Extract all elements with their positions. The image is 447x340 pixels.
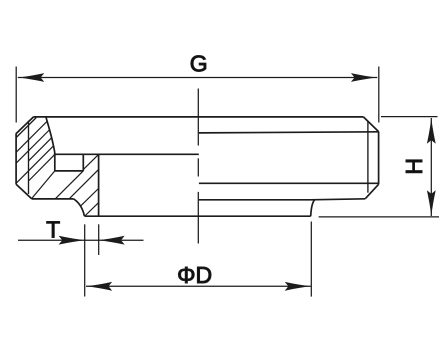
dimension T / PhiD left extension line bbox=[84, 224, 86, 296]
bottom edge left bbox=[32, 198, 74, 200]
dimension H bottom extension line bbox=[319, 216, 439, 218]
hatch line 9 bbox=[69, 170, 98, 199]
bottom face bbox=[84, 215, 310, 217]
body rim line right (y=183) bbox=[199, 182, 379, 184]
H top arrow bbox=[427, 118, 436, 144]
dimension H top extension line bbox=[381, 116, 438, 118]
left fillet bbox=[74, 199, 85, 216]
dimension G left extension line bbox=[15, 67, 17, 123]
top-right chamfer bbox=[363, 117, 378, 132]
hatch line 6 bbox=[32, 171, 55, 199]
svg-text:ΦD: ΦD bbox=[177, 262, 212, 288]
hatch line 5 bbox=[29, 154, 55, 181]
right fillet bbox=[311, 200, 315, 217]
hatch line 7 bbox=[55, 171, 83, 199]
top-left chamfer crest line bbox=[16, 117, 33, 134]
dimension T right extension line bbox=[98, 224, 100, 255]
recess floor line bbox=[54, 153, 199, 155]
G right arrow bbox=[351, 73, 377, 82]
left root line bbox=[28, 121, 30, 194]
left crest edge bbox=[15, 133, 17, 184]
svg-text:H: H bbox=[401, 158, 427, 175]
svg-text:T: T bbox=[46, 217, 60, 243]
bottom-left chamfer bbox=[16, 184, 32, 199]
G left arrow bbox=[18, 73, 44, 82]
dimension H line bbox=[430, 118, 432, 216]
hatch line 11 bbox=[85, 203, 99, 216]
groove box bottom bbox=[55, 170, 84, 172]
top face bbox=[34, 116, 364, 118]
hatch line 8 bbox=[83, 155, 98, 170]
dimension PhiD line bbox=[86, 285, 311, 287]
right chamfer circle line bbox=[199, 132, 378, 133]
hatch line 3 bbox=[29, 138, 52, 161]
H bottom arrow bbox=[427, 190, 436, 216]
T left arrow (points right) bbox=[59, 236, 85, 245]
hatch line 4 bbox=[16, 146, 53, 183]
dimension T line bbox=[18, 239, 144, 241]
step wall bbox=[98, 154, 100, 216]
dimension PhiD right extension line bbox=[310, 222, 312, 297]
inner taper (slant) bbox=[46, 117, 55, 154]
dimension G right extension line bbox=[378, 67, 380, 123]
hatch line 1 bbox=[16, 121, 47, 152]
right crest edge bbox=[378, 132, 380, 185]
svg-text:G: G bbox=[190, 51, 208, 77]
PhiD right arrow bbox=[285, 282, 311, 291]
top-left chamfer root line bbox=[16, 118, 36, 138]
hatch line 2 bbox=[16, 130, 50, 164]
T right arrow (points left) bbox=[99, 236, 125, 245]
section hatching of left wall bbox=[16, 121, 99, 216]
dimension G line bbox=[18, 77, 378, 79]
arrowheads bbox=[18, 73, 435, 291]
groove box left wall bbox=[54, 154, 56, 171]
PhiD left arrow bbox=[86, 282, 112, 291]
groove box right wall bbox=[82, 154, 84, 171]
hatch line 10 bbox=[80, 189, 98, 207]
bottom-right chamfer bbox=[365, 184, 378, 198]
right root line bbox=[367, 122, 369, 193]
centerline bbox=[197, 89, 199, 244]
bottom edge right / body lower rim bbox=[199, 199, 366, 200]
